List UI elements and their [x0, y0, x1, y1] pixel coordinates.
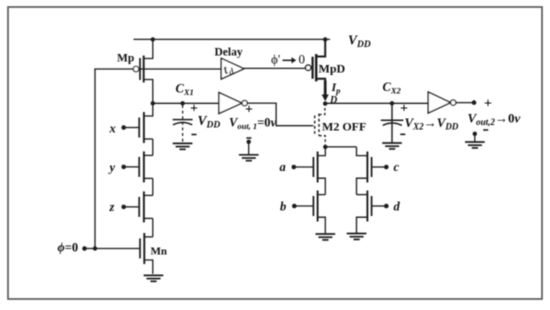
ground under d [347, 234, 367, 240]
current arrow Ip [322, 81, 329, 102]
ground under Mn [144, 275, 164, 281]
label + at CX1 [190, 102, 198, 117]
svg-text:Mp: Mp [117, 53, 134, 65]
node CX2 tap [390, 101, 394, 105]
wire U3 output [456, 102, 474, 104]
transistor z [121, 191, 152, 222]
node X1 junction [151, 101, 155, 105]
label + at CX2 [400, 102, 408, 117]
svg-text:D: D [329, 95, 337, 106]
label + at U2 output [245, 103, 253, 118]
wire left stack rail [152, 139, 154, 237]
svg-text:ϕ=0: ϕ=0 [58, 241, 79, 255]
svg-text:Delay: Delay [215, 47, 243, 59]
wire left vertical [94, 69, 96, 249]
svg-text:y: y [108, 161, 116, 175]
transistor Mp [133, 39, 153, 103]
label CX1 [176, 82, 194, 98]
node Vout2 minus terminal [473, 132, 477, 142]
wire U2 output to M2 gate [247, 103, 313, 126]
label - at CX1 [192, 134, 197, 136]
label x [109, 122, 116, 136]
svg-text:ϕ': ϕ' [271, 52, 280, 67]
svg-text:x: x [109, 122, 116, 136]
node M2 source junction [323, 145, 327, 149]
transistor a [292, 147, 326, 195]
label c [394, 160, 400, 174]
label CX2 [383, 80, 402, 96]
svg-text:c: c [394, 160, 400, 174]
ground under Vout1 [239, 155, 259, 161]
label Delay [215, 47, 243, 59]
transistor M2 (dashed, OFF) [315, 106, 326, 145]
svg-text:z: z [109, 200, 115, 214]
label a [280, 160, 286, 174]
label Mp [117, 53, 134, 65]
inverter U3 [428, 92, 456, 113]
inverter U2 [219, 93, 247, 114]
transistor x [121, 103, 152, 143]
svg-text:MpD: MpD [319, 62, 346, 76]
svg-text:0: 0 [299, 52, 306, 67]
wire phi gate bus [94, 68, 221, 70]
node phi junction [93, 246, 97, 250]
svg-text:+: + [245, 103, 253, 118]
svg-text:+: + [484, 97, 492, 112]
label VDD [348, 33, 371, 51]
node D junction [323, 101, 327, 105]
node CX1 tap [180, 101, 184, 105]
transistor d [357, 191, 389, 234]
transistor y [121, 151, 152, 182]
label VX2 -> VDD [405, 115, 459, 132]
label Ip [331, 80, 341, 96]
svg-text:d: d [394, 200, 401, 214]
node VDD-MpD junction [323, 37, 327, 41]
label Mn [151, 246, 168, 258]
label + at Vout2 [484, 97, 492, 112]
label - at Vout1 [246, 137, 251, 139]
transistor MpD [306, 39, 326, 81]
label d [394, 200, 401, 214]
node VDD-Mp junction [151, 37, 155, 41]
ground under b [316, 234, 336, 240]
wire node X1 [153, 102, 219, 104]
label Vout2 [468, 111, 521, 128]
label phi'->0 [271, 52, 305, 67]
ground under CX2 [382, 143, 402, 149]
node Vout1 minus terminal [247, 140, 251, 155]
svg-text:Vout,2→0v: Vout,2→0v [468, 111, 521, 128]
wire phi input [85, 248, 141, 250]
svg-text:Mn: Mn [151, 246, 168, 258]
wire branch top [325, 146, 356, 148]
transistor b [292, 191, 325, 234]
wire VDD rail [134, 38, 331, 40]
label y [108, 161, 116, 175]
label z [109, 200, 115, 214]
terminal phi [82, 246, 87, 251]
ground under CX1 [173, 143, 193, 149]
svg-text:a: a [280, 160, 286, 174]
label Vout1 [229, 116, 277, 132]
svg-text:b: b [280, 200, 286, 214]
label td [221, 60, 236, 80]
svg-text:M2 OFF: M2 OFF [322, 120, 366, 134]
label phi=0 [58, 241, 79, 255]
transistor c [357, 147, 389, 195]
capacitor CX1 [173, 105, 193, 143]
label b [280, 200, 286, 214]
ground under Vout2 [465, 142, 485, 148]
label VDD at CX1 [198, 113, 221, 131]
label MpD [319, 62, 346, 76]
label - at CX2 [400, 133, 405, 135]
wire Delay output [244, 67, 306, 69]
label node D [329, 95, 337, 106]
label M2 OFF [322, 120, 366, 134]
wire node D to CX2 and U3 [325, 102, 428, 104]
transistor Mn [140, 233, 153, 274]
label - at Vout2 [483, 129, 488, 131]
capacitor CX2 [381, 103, 404, 142]
terminal Vout2 [472, 100, 477, 105]
buffer Delay [221, 58, 244, 79]
